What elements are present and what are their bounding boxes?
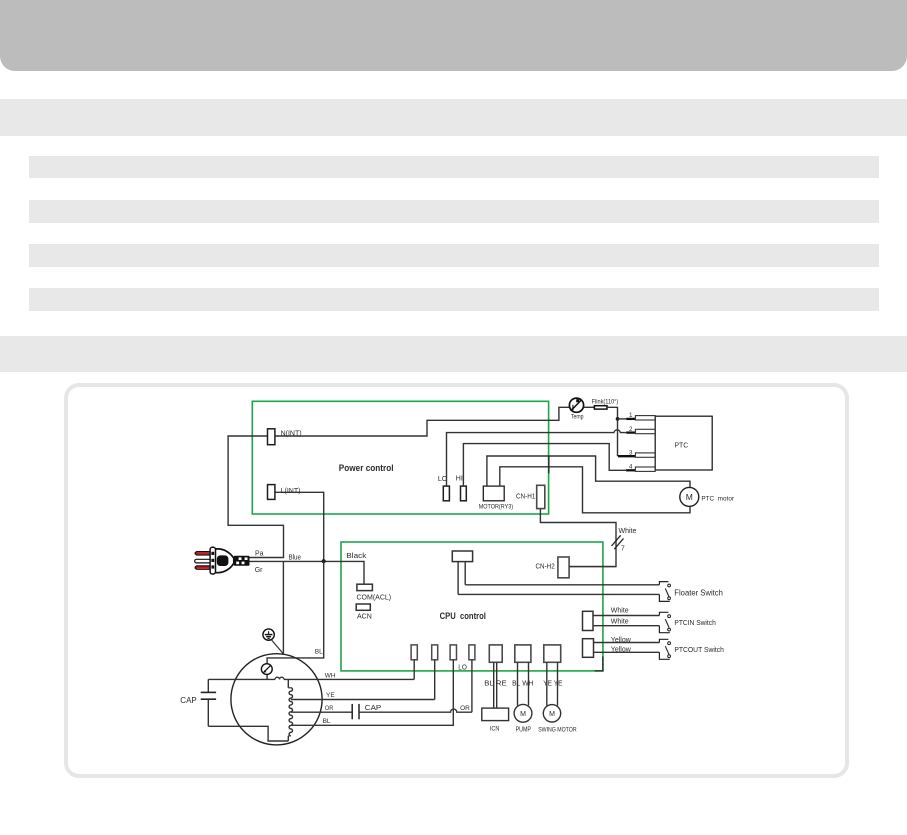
- svg-text:White: White: [619, 528, 637, 535]
- svg-text:Yellow: Yellow: [611, 647, 632, 654]
- svg-text:LO: LO: [458, 664, 467, 671]
- svg-text:CPU control: CPU control: [440, 611, 486, 621]
- svg-text:CN-H2: CN-H2: [536, 564, 555, 571]
- svg-text:BL: BL: [315, 649, 323, 656]
- svg-text:OR: OR: [325, 705, 334, 712]
- svg-text:HI: HI: [456, 475, 463, 482]
- svg-text:L(INT): L(INT): [281, 488, 301, 495]
- svg-text:PTC motor: PTC motor: [701, 495, 734, 502]
- svg-text:PTCIN Switch: PTCIN Switch: [674, 618, 715, 627]
- svg-text:M: M: [686, 492, 693, 502]
- svg-text:Floater Switch: Floater Switch: [674, 589, 723, 598]
- svg-text:BL WH: BL WH: [512, 680, 533, 687]
- svg-text:Temp: Temp: [571, 414, 584, 421]
- svg-text:OR: OR: [460, 705, 470, 712]
- svg-text:CAP: CAP: [180, 696, 196, 705]
- svg-text:1: 1: [629, 412, 633, 419]
- svg-text:4: 4: [629, 464, 633, 471]
- svg-text:BL: BL: [323, 718, 331, 725]
- svg-text:7: 7: [621, 546, 625, 553]
- svg-text:M: M: [520, 711, 526, 718]
- svg-text:CAP: CAP: [365, 705, 382, 712]
- svg-text:PTCOUT Switch: PTCOUT Switch: [674, 645, 724, 654]
- svg-text:White: White: [611, 619, 629, 626]
- svg-text:Gr: Gr: [255, 567, 263, 574]
- svg-text:Black: Black: [346, 551, 366, 560]
- svg-text:Pa: Pa: [255, 550, 264, 557]
- svg-text:PUMP: PUMP: [516, 726, 532, 733]
- svg-text:MOTOR(RY3): MOTOR(RY3): [479, 504, 513, 511]
- svg-text:2: 2: [629, 426, 633, 433]
- svg-text:BL RE: BL RE: [484, 680, 507, 687]
- svg-text:M: M: [549, 711, 555, 718]
- svg-text:Power control: Power control: [339, 463, 394, 474]
- svg-text:COM(ACL): COM(ACL): [357, 594, 392, 601]
- svg-text:WH: WH: [325, 672, 336, 679]
- svg-text:ICN: ICN: [490, 725, 500, 732]
- svg-text:SWING MOTOR: SWING MOTOR: [538, 726, 577, 733]
- svg-text:Flink(110°): Flink(110°): [592, 399, 619, 406]
- svg-text:3: 3: [629, 449, 633, 456]
- svg-text:PTC: PTC: [675, 441, 689, 450]
- svg-text:CN-H1: CN-H1: [516, 494, 536, 501]
- svg-text:Blue: Blue: [289, 555, 302, 562]
- svg-text:Yellow: Yellow: [611, 637, 632, 644]
- svg-text:N(INT): N(INT): [281, 431, 302, 438]
- svg-text:ACN: ACN: [357, 614, 372, 621]
- svg-text:White: White: [611, 608, 629, 615]
- svg-text:YE: YE: [326, 692, 335, 699]
